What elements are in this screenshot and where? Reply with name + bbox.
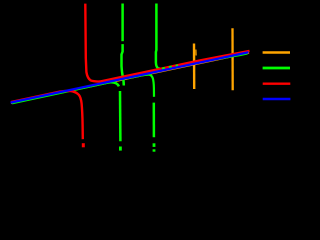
green pole 2 lower dots: [153, 143, 156, 147]
green pole 1 lower dot: [119, 147, 122, 151]
red upper column and right segment: [85, 4, 249, 82]
orange spike 1 side sliver: [195, 50, 197, 56]
legend line blue: [263, 98, 291, 101]
orange curve baseline segment: [11, 53, 249, 103]
green pole 1 lower column: [119, 91, 122, 141]
blue straight line: [11, 52, 249, 102]
green left segment approaching pole 1: [12, 82, 119, 103]
legend line green: [263, 67, 290, 70]
green pole 2 lower column: [153, 103, 156, 138]
legend line red: [263, 82, 291, 84]
green dashes over red after pole 2: [162, 65, 178, 68]
orange spike 1: [193, 44, 196, 90]
legend line orange: [263, 51, 290, 54]
orange spike 2: [231, 28, 233, 90]
green mid segment between poles: [127, 75, 154, 97]
green pole 1 upper column and mid descent: [121, 4, 124, 42]
green pole 2 upper column and right segment: [156, 4, 248, 70]
red lower dot: [82, 143, 85, 147]
red left segment and dive: [11, 91, 83, 139]
